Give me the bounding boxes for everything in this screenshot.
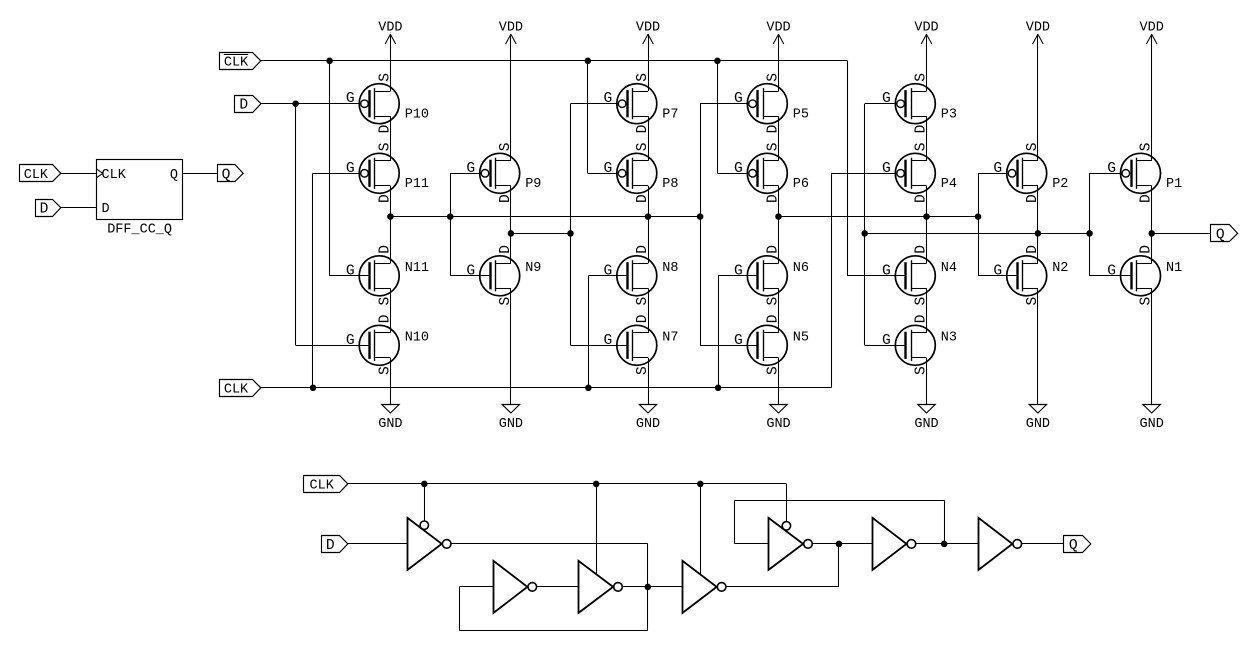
svg-text:GND: GND — [636, 417, 660, 432]
junction CLK/U4 — [697, 481, 704, 488]
wire CLK up to N8 gate — [588, 276, 590, 388]
svg-text:S: S — [635, 366, 651, 375]
wire CLK to U1 clock bubble — [424, 484, 426, 521]
wire N1 source to GND col7 — [1151, 288, 1153, 405]
power VDD col3 — [636, 20, 660, 44]
power VDD col6 — [1026, 20, 1050, 44]
svg-text:D: D — [1139, 194, 1155, 203]
output flag Q (top section) — [1211, 225, 1238, 244]
junction CLK/P11 — [310, 385, 317, 392]
wire node X rail (master) — [390, 216, 700, 218]
wire N7 source to GND col3 — [648, 358, 650, 405]
svg-text:G: G — [734, 333, 743, 349]
wire CLK to U4 clock pin — [700, 484, 702, 575]
nmos transistor N8 — [604, 245, 679, 306]
svg-text:Q: Q — [1069, 538, 1078, 554]
junction D node — [292, 100, 299, 107]
nmos transistor N5 — [734, 314, 809, 375]
svg-text:VDD: VDD — [636, 20, 660, 35]
svg-text:S: S — [635, 297, 651, 306]
svg-text:D: D — [498, 245, 514, 254]
pmos transistor P1 — [1107, 142, 1182, 203]
pmos transistor P4 — [882, 142, 957, 203]
output flag Q (DFF symbol) — [218, 165, 244, 184]
svg-text:G: G — [604, 263, 613, 279]
svg-text:D: D — [635, 124, 651, 133]
wire QB to P1/N1 gates — [1089, 173, 1091, 275]
junction CLK/N6 — [715, 385, 722, 392]
svg-text:CLK: CLK — [224, 382, 249, 397]
junction X/col1 — [387, 213, 394, 220]
svg-text:N4: N4 — [941, 261, 957, 276]
svg-text:N6: N6 — [793, 261, 809, 276]
junction CLK-bar/P6 — [714, 58, 721, 65]
svg-text:S: S — [914, 73, 930, 82]
junction CLK/U3 — [593, 481, 600, 488]
input flag D (gate level) — [322, 536, 348, 554]
junction node M — [645, 584, 652, 591]
pmos transistor P9 — [466, 142, 541, 203]
svg-text:G: G — [346, 333, 355, 349]
ground GND col6 — [1026, 405, 1050, 433]
wire VDD col7 to P1 source — [1151, 34, 1153, 161]
wire CLK up to P11 gate — [312, 173, 314, 387]
wire P6 drain to N6 drain (node Y) — [778, 186, 780, 263]
svg-text:VDD: VDD — [499, 20, 523, 35]
wire N11 source to N10 drain — [390, 288, 392, 333]
wire N8 source to N7 drain — [648, 288, 650, 333]
wire col2 to feedback link — [511, 233, 571, 235]
wire CLK to DFF box — [61, 173, 97, 175]
svg-text:S: S — [914, 142, 930, 151]
svg-text:G: G — [1107, 161, 1116, 177]
svg-text:G: G — [346, 263, 355, 279]
input flag CLK (bottom of top section) — [220, 380, 261, 398]
wire CLK up to N6 gate — [718, 276, 720, 388]
svg-text:D: D — [1139, 245, 1155, 254]
svg-text:N7: N7 — [662, 331, 678, 346]
wire X to P5/N5 gates — [700, 104, 702, 346]
svg-text:D: D — [40, 202, 49, 218]
svg-text:P5: P5 — [793, 107, 809, 122]
wire N10 source to GND col1 — [390, 358, 392, 405]
svg-text:VDD: VDD — [1026, 20, 1050, 35]
wire P3 drain to P4 source — [926, 116, 928, 161]
svg-text:D: D — [914, 314, 930, 323]
junction QB/col6 — [1035, 230, 1042, 237]
svg-text:GND: GND — [1026, 417, 1050, 432]
svg-text:P1: P1 — [1166, 177, 1182, 192]
ground GND col3 — [636, 405, 660, 433]
svg-text:S: S — [766, 297, 782, 306]
junction X/P9-N9 — [447, 213, 454, 220]
junction CLK/N8 — [585, 385, 592, 392]
wire N4 source to N3 drain — [926, 288, 928, 333]
junction Y/col4 — [775, 213, 782, 220]
svg-text:D: D — [239, 98, 248, 114]
svg-text:P3: P3 — [941, 107, 957, 122]
wire N5 source to GND col4 — [778, 358, 780, 405]
svg-text:GND: GND — [1140, 417, 1164, 432]
wire VDD col4 to P5 source — [778, 34, 780, 91]
svg-text:CLK: CLK — [224, 55, 249, 70]
wire P9 drain to N9 drain — [510, 186, 512, 263]
clocked inverter U3 — [579, 561, 623, 613]
wire U1 output to node M — [451, 543, 648, 545]
svg-text:G: G — [1107, 263, 1116, 279]
wire Q output — [1152, 233, 1211, 235]
pmos transistor P2 — [993, 142, 1068, 203]
junction col2 link — [508, 230, 515, 237]
svg-text:D: D — [377, 124, 393, 133]
junction X/col3 — [645, 213, 652, 220]
wire P1 drain to N1 drain (Q) — [1151, 186, 1153, 263]
wire P7 drain to P8 source — [648, 116, 650, 161]
wire P8 drain to N8 drain — [648, 186, 650, 263]
pmos transistor P7 — [604, 73, 679, 134]
nmos transistor N10 — [346, 314, 429, 375]
svg-text:D: D — [635, 245, 651, 254]
power VDD col7 — [1140, 20, 1164, 44]
svg-text:S: S — [635, 142, 651, 151]
svg-text:S: S — [377, 366, 393, 375]
svg-text:N10: N10 — [405, 331, 429, 346]
power VDD col4 — [766, 20, 790, 44]
DFF_CC_Q box U1 — [96, 160, 182, 220]
svg-text:P11: P11 — [405, 177, 429, 192]
nmos transistor N11 — [346, 245, 429, 306]
svg-text:DFF_CC_Q: DFF_CC_Q — [107, 223, 172, 238]
wire N6 source to N5 drain — [778, 288, 780, 333]
svg-text:D: D — [1025, 245, 1041, 254]
svg-text:P10: P10 — [405, 107, 429, 122]
pmos transistor P6 — [734, 142, 809, 203]
svg-text:D: D — [766, 314, 782, 323]
svg-text:Q: Q — [1216, 227, 1225, 243]
svg-text:GND: GND — [766, 417, 790, 432]
svg-text:GND: GND — [499, 417, 523, 432]
clocked inverter U5 — [769, 518, 813, 570]
pmos transistor P10 — [346, 73, 429, 134]
svg-text:S: S — [498, 142, 514, 151]
svg-text:P4: P4 — [941, 177, 957, 192]
svg-text:S: S — [1025, 142, 1041, 151]
svg-text:G: G — [466, 263, 475, 279]
inverter U2 — [494, 561, 537, 613]
svg-text:S: S — [766, 73, 782, 82]
wire N3 source to GND col5 — [926, 358, 928, 405]
input flag D (top) — [235, 96, 262, 114]
svg-text:S: S — [1025, 297, 1041, 306]
wire CLK-bar down to P8 gate — [587, 61, 589, 174]
wire CLK-bar down to N11 gate — [329, 61, 331, 276]
svg-text:G: G — [882, 333, 891, 349]
wire P2 drain to N2 drain — [1037, 186, 1039, 263]
nmos transistor N4 — [882, 245, 957, 306]
wire CLK-bar rail — [261, 60, 848, 62]
svg-text:P9: P9 — [525, 177, 541, 192]
svg-text:D: D — [102, 202, 110, 217]
svg-text:G: G — [882, 91, 891, 107]
pmos transistor P11 — [346, 142, 429, 203]
svg-text:G: G — [346, 161, 355, 177]
inverter U6 — [873, 518, 916, 570]
junction Q/col7 — [1148, 230, 1155, 237]
input flag D (DFF symbol) — [36, 200, 61, 218]
svg-text:S: S — [914, 297, 930, 306]
nmos transistor N1 — [1107, 245, 1182, 306]
ground GND col5 — [914, 405, 938, 433]
svg-text:N11: N11 — [405, 261, 429, 276]
svg-text:G: G — [882, 263, 891, 279]
svg-text:P2: P2 — [1052, 177, 1068, 192]
svg-text:S: S — [1139, 297, 1155, 306]
ground GND col4 — [766, 405, 790, 433]
wire D to P10 gate — [261, 103, 361, 105]
wire D to U1 input — [348, 543, 408, 545]
wire CLK up to P4 gate — [831, 173, 833, 387]
wire U5 output to node S to U6 input — [812, 543, 872, 545]
svg-text:S: S — [766, 142, 782, 151]
svg-text:S: S — [498, 297, 514, 306]
svg-text:G: G — [734, 161, 743, 177]
ground GND col2 — [499, 405, 523, 433]
svg-text:S: S — [377, 73, 393, 82]
svg-text:G: G — [466, 161, 475, 177]
junction feedback link — [567, 230, 574, 237]
nmos transistor N3 — [882, 314, 957, 375]
wire QB to P3/N3 gates — [864, 104, 866, 346]
svg-text:S: S — [914, 366, 930, 375]
wire VDD col2 to P9 source — [510, 34, 512, 161]
nmos transistor N9 — [466, 245, 541, 306]
svg-text:GND: GND — [378, 417, 402, 432]
input flag CLK (gate level) — [304, 476, 348, 494]
wire P11 drain to N11 drain (node X) — [390, 186, 392, 263]
junction Y/col5 — [923, 213, 930, 220]
svg-text:D: D — [914, 245, 930, 254]
svg-text:G: G — [993, 263, 1002, 279]
svg-text:G: G — [346, 91, 355, 107]
svg-text:D: D — [377, 194, 393, 203]
junction CLK-bar/P8 — [585, 58, 592, 65]
wire VDD col3 to P7 source — [648, 34, 650, 91]
wire VDD col1 to P10 source — [390, 34, 392, 91]
wire U3 output to node M — [622, 586, 682, 588]
svg-text:G: G — [993, 161, 1002, 177]
svg-text:D: D — [766, 194, 782, 203]
svg-text:S: S — [1139, 142, 1155, 151]
svg-text:D: D — [377, 314, 393, 323]
wire SB feedback to U5 input — [944, 500, 946, 544]
power VDD col2 — [499, 20, 523, 44]
wire U6 output to node SB — [916, 543, 979, 545]
wire VDD col5 to P3 source — [926, 34, 928, 91]
svg-text:S: S — [377, 297, 393, 306]
svg-text:N8: N8 — [662, 261, 678, 276]
svg-text:N9: N9 — [525, 261, 541, 276]
clocked inverter U4 — [683, 561, 726, 613]
svg-text:D: D — [635, 314, 651, 323]
svg-text:CLK: CLK — [24, 168, 49, 183]
svg-text:CLK: CLK — [310, 479, 335, 494]
wire CLK rail (bottom) — [261, 387, 831, 389]
svg-text:N1: N1 — [1166, 261, 1182, 276]
svg-text:P8: P8 — [662, 177, 678, 192]
ground GND col7 — [1140, 405, 1164, 433]
junction X/P5-N5 — [697, 213, 704, 220]
svg-text:N2: N2 — [1052, 261, 1068, 276]
junction CLK/U1 — [421, 481, 428, 488]
svg-text:S: S — [766, 366, 782, 375]
wire P5 drain to P6 source — [778, 116, 780, 161]
input flag CLK (DFF symbol) — [20, 165, 61, 183]
svg-text:GND: GND — [914, 417, 938, 432]
wire CLK rail (gate level) — [348, 483, 787, 485]
junction Y/P2-N2 — [975, 213, 982, 220]
wire X to P9/N9 gates — [450, 173, 452, 275]
svg-text:N3: N3 — [941, 331, 957, 346]
junction QB/P3-N3 — [861, 230, 868, 237]
svg-text:G: G — [734, 91, 743, 107]
svg-text:D: D — [1025, 194, 1041, 203]
svg-text:G: G — [604, 161, 613, 177]
junction node S — [836, 541, 843, 548]
svg-text:VDD: VDD — [914, 20, 938, 35]
svg-text:D: D — [914, 124, 930, 133]
wire CLK to U3 clock pin — [596, 484, 598, 574]
svg-text:G: G — [882, 161, 891, 177]
svg-text:VDD: VDD — [766, 20, 790, 35]
wire node M loop to U2 input — [459, 630, 648, 632]
wire N9 source to GND col2 — [510, 288, 512, 405]
pmos transistor P8 — [604, 142, 679, 203]
wire QB rail (slave feedback) — [865, 233, 1090, 235]
svg-text:N5: N5 — [793, 331, 809, 346]
svg-text:Q: Q — [170, 168, 178, 183]
svg-text:G: G — [604, 91, 613, 107]
wire master feedback to P7/N7 gates — [570, 104, 572, 346]
svg-text:P6: P6 — [793, 177, 809, 192]
wire CLK-bar down to N4 gate — [847, 61, 849, 276]
wire D to DFF box — [61, 207, 97, 209]
power VDD col1 — [378, 20, 402, 44]
svg-text:VDD: VDD — [1140, 20, 1164, 35]
wire P10 drain to P11 source — [390, 116, 392, 161]
ground GND col1 — [378, 405, 402, 433]
wire U4 output to node S — [726, 586, 839, 588]
wire Y to P2/N2 gates — [978, 173, 980, 275]
nmos transistor N2 — [993, 245, 1068, 306]
inverter U7 — [979, 518, 1022, 570]
svg-text:CLK: CLK — [102, 168, 127, 183]
svg-text:D: D — [326, 538, 335, 554]
svg-text:P7: P7 — [662, 107, 678, 122]
nmos transistor N6 — [734, 245, 809, 306]
clocked inverter U1 — [408, 518, 452, 570]
svg-text:G: G — [734, 263, 743, 279]
output flag Q (gate level) — [1064, 536, 1091, 554]
svg-text:D: D — [377, 245, 393, 254]
wire VDD col6 to P2 source — [1037, 34, 1039, 161]
wire P4 drain to N4 drain — [926, 186, 928, 263]
wire N2 source to GND col6 — [1037, 288, 1039, 405]
svg-text:D: D — [498, 194, 514, 203]
nmos transistor N7 — [604, 314, 679, 375]
wire node Y rail (slave) — [779, 216, 979, 218]
junction CLK-bar/N11 — [326, 58, 333, 65]
wire Q from DFF box — [183, 173, 217, 175]
svg-text:S: S — [635, 73, 651, 82]
wire CLK to U5 clock bubble — [786, 484, 788, 522]
svg-text:G: G — [604, 333, 613, 349]
junction node SB — [941, 541, 948, 548]
junction QB/P1-N1 — [1086, 230, 1093, 237]
input flag CLK-bar (top) — [220, 53, 261, 71]
svg-text:Q: Q — [222, 167, 231, 183]
svg-text:S: S — [377, 142, 393, 151]
pmos transistor P5 — [734, 73, 809, 134]
pmos transistor P3 — [882, 73, 957, 134]
svg-text:D: D — [766, 124, 782, 133]
wire CLK-bar down to P6 gate — [717, 61, 719, 174]
svg-text:D: D — [766, 245, 782, 254]
svg-text:D: D — [914, 194, 930, 203]
svg-text:D: D — [635, 194, 651, 203]
wire U2 output to U3 input — [537, 586, 579, 588]
svg-text:VDD: VDD — [378, 20, 402, 35]
power VDD col5 — [914, 20, 938, 44]
wire U7 output to Q flag — [1022, 543, 1064, 545]
wire D down to N10 gate — [295, 104, 297, 346]
